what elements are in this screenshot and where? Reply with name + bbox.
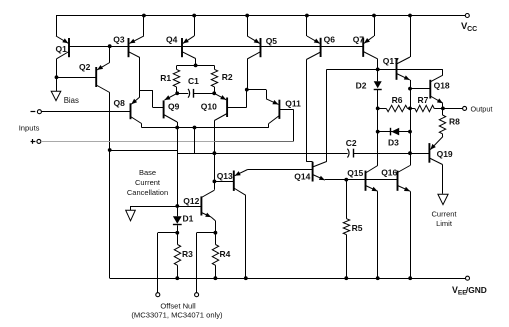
svg-text:Base: Base [139, 168, 156, 177]
wire node A line [110, 150, 178, 152]
node VCC rail junction Q7 [372, 14, 376, 18]
wire Q2 base [57, 77, 97, 79]
wire Q10 collector column [214, 121, 216, 190]
wire output lead [443, 108, 463, 110]
node A (Q2 collector / cancellation feed) [108, 148, 112, 152]
svg-text:Output: Output [471, 104, 493, 113]
svg-text:Q13: Q13 [217, 171, 233, 181]
wire base rail Q1-Q7 [69, 46, 363, 48]
node D1 anode junction [175, 204, 179, 208]
transistor Q6 [306, 16, 320, 162]
transistor Q16 [398, 166, 411, 279]
node rail junction Q15 [376, 276, 380, 280]
wire offset bracket right [197, 232, 216, 234]
wire D1 column [177, 128, 179, 217]
node Q1 collector / Q2 base junction [55, 75, 59, 79]
transistor Q14 [313, 162, 327, 182]
node Q17 emitter / Q18 base junction [408, 87, 412, 91]
svg-text:Q18: Q18 [434, 80, 450, 90]
node VCC rail junction Q4 [192, 14, 196, 18]
wire Q14 collector to Q18 collector line [327, 69, 443, 71]
wire Q2 collector column [109, 93, 111, 279]
cancellation arrow (open triangle) [126, 210, 136, 221]
node rail junction Q16 [408, 276, 412, 280]
transistor Q8 [131, 97, 142, 128]
label plus [31, 141, 36, 143]
wire offset bracket left [158, 232, 178, 234]
wire node B line [177, 153, 214, 155]
wire VEE rail [110, 278, 466, 280]
svg-text:Cancellation: Cancellation [127, 188, 168, 197]
node rail junction Q13 [244, 276, 248, 280]
transistor Q15 [366, 166, 378, 279]
node R3 top junction [175, 231, 179, 235]
svg-text:Q10: Q10 [201, 102, 217, 112]
label minus [31, 111, 36, 113]
node step junction [193, 126, 197, 130]
bias arrow (open triangle) [51, 91, 61, 100]
wire Q12 base line [131, 206, 202, 208]
resistor R2 [214, 65, 216, 69]
transistor Q10 [214, 90, 247, 121]
resistor R6 [378, 108, 387, 110]
svg-text:/GND: /GND [466, 285, 487, 295]
terminal inverting input [37, 110, 41, 114]
wire Q3 collector to Q9 base step [140, 90, 153, 92]
wire Q14 collector riser [326, 69, 328, 161]
svg-text:Q16: Q16 [381, 167, 397, 177]
wire Q5 collector to Q11 emitter [247, 89, 266, 91]
transistor Q11 [269, 100, 294, 142]
terminal offset null right [195, 293, 199, 297]
svg-text:R8: R8 [449, 117, 460, 127]
svg-text:Q7: Q7 [353, 35, 365, 45]
wire inverting input line [42, 111, 131, 113]
node output junction [441, 107, 445, 111]
svg-text:R5: R5 [352, 223, 363, 233]
transistor Q4 [182, 16, 196, 66]
node R2 bottom / Q10 emitter [212, 91, 216, 95]
wire VCC rail [56, 15, 465, 17]
node D2 / Q17 base junction [376, 68, 380, 72]
transistor Q9 [164, 93, 178, 127]
svg-text:R2: R2 [222, 72, 233, 82]
transistor Q5 [247, 16, 260, 90]
node rail junction R4 [214, 276, 218, 280]
svg-text:Q5: Q5 [266, 36, 278, 46]
svg-text:Offset Null: Offset Null [160, 301, 196, 310]
wire Q13 emitter to Q14 base [248, 169, 313, 171]
wire Q18 collector drop [442, 69, 444, 75]
transistor Q19 [429, 137, 443, 194]
node R1 bottom / Q9 emitter [175, 91, 179, 95]
transistor Q17 [397, 16, 411, 166]
svg-text:Q2: Q2 [79, 62, 91, 72]
svg-text:Q12: Q12 [183, 196, 199, 206]
svg-text:D1: D1 [183, 214, 194, 224]
wire collector node line [142, 127, 269, 129]
svg-text:Q3: Q3 [113, 34, 125, 44]
wire R1-R2 top bracket [177, 65, 214, 67]
terminal VCC [465, 14, 469, 18]
terminal VEE/GND [466, 276, 470, 280]
svg-text:(MC33071, MC34071 only): (MC33071, MC34071 only) [131, 310, 223, 319]
transistor Q18 [410, 80, 443, 115]
node R6-R7 junction [408, 107, 412, 111]
svg-text:R1: R1 [160, 73, 171, 83]
node Q19 base junction [408, 151, 412, 155]
wire step down to C2 node [194, 128, 196, 154]
transistor Q1 [56, 16, 69, 92]
node D3 left junction [376, 130, 380, 134]
node rail junction R3 [175, 276, 179, 280]
svg-text:C1: C1 [188, 76, 199, 86]
node VCC rail junction Q17 [408, 14, 412, 18]
diode D1 [173, 216, 182, 224]
svg-text:R6: R6 [392, 95, 403, 105]
node Q13 base junction [213, 180, 217, 184]
resistor R4 [212, 245, 218, 266]
node rail junction R5 [344, 276, 348, 280]
terminal Output [463, 106, 467, 110]
resistor R7 [410, 108, 415, 110]
svg-text:Current: Current [431, 209, 457, 218]
diode D2 [374, 81, 382, 88]
resistor R3 [174, 245, 180, 266]
current limit arrow (open triangle) [438, 194, 448, 204]
svg-text:R3: R3 [182, 249, 193, 259]
svg-text:Limit: Limit [436, 219, 453, 228]
svg-text:Q4: Q4 [166, 34, 178, 44]
node R5 top junction [344, 178, 348, 182]
svg-text:Q8: Q8 [114, 98, 126, 108]
transistor Q12 [201, 190, 215, 244]
svg-text:R4: R4 [220, 249, 231, 259]
node C2 node junction [213, 151, 217, 155]
node Q4 collector / R1 R2 junction [194, 64, 198, 68]
svg-text:Q1: Q1 [56, 44, 68, 54]
node R6 left junction [376, 107, 380, 111]
node VCC rail junction Q6 [305, 14, 309, 18]
svg-text:R7: R7 [418, 95, 429, 105]
svg-text:Q19: Q19 [437, 149, 453, 159]
node Q5 collector junction [245, 88, 249, 92]
node VCC rail junction Q3 [142, 14, 146, 18]
node R4 top junction [214, 231, 218, 235]
wire C2 left line [214, 153, 347, 155]
wire D3 line [378, 131, 410, 133]
svg-text:Q11: Q11 [285, 98, 301, 108]
terminal offset null left [156, 293, 160, 297]
svg-text:Q14: Q14 [294, 171, 310, 181]
resistor R8 [439, 115, 445, 134]
svg-text:D2: D2 [356, 81, 367, 91]
transistor Q3 [129, 16, 144, 98]
capacitor C2 [347, 149, 349, 158]
node Q9 collector junction [175, 126, 179, 130]
transistor Q7 [363, 16, 378, 82]
node VCC rail junction Q5 [245, 14, 249, 18]
wire D2 cathode column [377, 90, 379, 166]
svg-text:CC: CC [467, 26, 477, 33]
wire cancellation stub [130, 206, 132, 210]
transistor Q2 [96, 46, 110, 92]
resistor R1 [176, 65, 178, 69]
svg-text:Q17: Q17 [383, 56, 399, 66]
terminal non-inverting input [37, 139, 41, 143]
resistor R5 [346, 180, 348, 219]
wire non-inverting input line [41, 141, 214, 143]
svg-text:D3: D3 [388, 137, 399, 147]
svg-text:Q6: Q6 [324, 35, 336, 45]
svg-text:Current: Current [135, 178, 161, 187]
capacitor C1 [177, 93, 188, 95]
svg-text:Q15: Q15 [347, 168, 363, 178]
wire Q15 Q16 base line [325, 179, 398, 181]
node base rail junction [108, 44, 112, 48]
diode D3 [391, 128, 399, 136]
transistor Q13 [214, 170, 247, 279]
svg-text:Bias: Bias [64, 96, 79, 105]
svg-text:C2: C2 [346, 138, 357, 148]
node D3 right junction [408, 130, 412, 134]
svg-text:Inputs: Inputs [19, 123, 40, 132]
svg-text:Q9: Q9 [168, 101, 180, 111]
wire D1 cathode [177, 225, 179, 244]
